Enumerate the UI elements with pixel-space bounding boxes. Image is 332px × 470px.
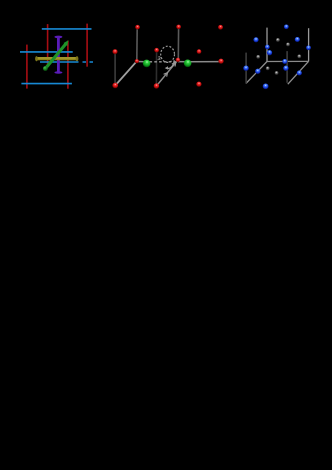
cell edge C-Cprime bbox=[246, 62, 267, 84]
purple axis arrow shaft bbox=[57, 38, 60, 73]
cell edge Bprime-Dprime hidden bbox=[286, 51, 288, 83]
bond R8-G2 horizontal bbox=[178, 61, 188, 63]
purple axis arrow bottom head bbox=[54, 71, 62, 74]
front-right red edge bbox=[67, 41, 69, 89]
atom B8 blue bbox=[255, 69, 260, 74]
olive axis arrow left head bbox=[35, 56, 38, 61]
atom R8 bbox=[176, 58, 180, 62]
translation chevron upper bbox=[172, 62, 176, 66]
atom B3 blue bbox=[295, 37, 300, 42]
rotation loop tail bbox=[166, 60, 174, 68]
atom B2 blue bbox=[253, 37, 258, 42]
green diagonal arrow ball end bbox=[43, 66, 48, 71]
atom B6 blue bbox=[306, 45, 311, 50]
atom D2 dark bbox=[286, 43, 290, 47]
rotation loop arrowhead bbox=[165, 66, 169, 70]
olive axis arrow shaft bbox=[37, 57, 77, 60]
bond R1-R3 vertical bbox=[136, 27, 138, 61]
atom R10 bbox=[218, 25, 223, 30]
screw axis label 21 bbox=[158, 57, 160, 60]
bond R2-R5 vertical bbox=[114, 52, 116, 86]
cell edge C-D bbox=[267, 60, 309, 62]
back-right red edge bbox=[86, 24, 88, 67]
atom R6 bbox=[154, 83, 159, 88]
atom R4 bbox=[154, 48, 159, 53]
atom R3 bbox=[135, 59, 139, 63]
back-bottom blue edge bbox=[40, 61, 79, 63]
bond R6-R8 diagonal bbox=[156, 60, 178, 87]
bond R4-R6 vertical bbox=[155, 50, 157, 86]
rotation loop dashed ellipse bbox=[161, 46, 175, 62]
back-bottom blue edge dashed end bbox=[83, 61, 94, 63]
atom D1 dark bbox=[276, 38, 280, 42]
green diagonal arrow shaft bbox=[45, 44, 66, 69]
atom R7 bbox=[176, 25, 181, 30]
front-left red edge bbox=[26, 45, 28, 89]
bond R3-G1 horizontal bbox=[137, 61, 146, 63]
cell edge Aprime-Cprime hidden bbox=[245, 53, 247, 84]
bond R7-R8 vertical bbox=[177, 27, 179, 60]
atom D4 dark bbox=[297, 55, 301, 59]
atom B4 blue bbox=[265, 45, 270, 50]
olive axis arrow right head bbox=[76, 56, 79, 61]
atom B12 blue bbox=[263, 83, 269, 89]
atom B9 blue bbox=[282, 59, 287, 64]
bond R5-R3 diagonal bbox=[115, 61, 137, 85]
atom R1 bbox=[135, 25, 140, 30]
atom B11 blue bbox=[297, 70, 302, 75]
atom D5 dark bbox=[266, 67, 270, 71]
atom R12 bbox=[196, 82, 201, 87]
atom B7 blue bbox=[243, 66, 248, 71]
green diagonal arrow tip bbox=[64, 40, 69, 46]
atom R9 bbox=[197, 49, 202, 54]
translation chevron lower bbox=[164, 73, 168, 77]
atom D6 dark bbox=[275, 71, 279, 75]
atom B1 blue bbox=[284, 24, 289, 29]
cell edge D-Dprime bbox=[288, 61, 309, 84]
cell edge B-D bbox=[308, 28, 310, 61]
atom G1 bbox=[143, 60, 151, 68]
purple axis arrow top head bbox=[54, 36, 62, 39]
atom B5 blue bbox=[267, 50, 272, 55]
back-left red edge bbox=[47, 24, 49, 66]
atom D3 dark bbox=[256, 55, 260, 59]
front-bottom blue edge bbox=[21, 83, 72, 85]
bond G2-R11 horizontal bbox=[188, 61, 220, 63]
atom R2 bbox=[113, 49, 118, 54]
cell edge A-C bbox=[266, 28, 268, 62]
front-top blue edge bbox=[20, 51, 73, 53]
atom G2 bbox=[184, 60, 192, 68]
back-top blue edge bbox=[42, 28, 92, 30]
olive axis arrow shaft highlight bbox=[37, 57, 77, 59]
dashed screw axis bbox=[150, 61, 178, 63]
atom B10 blue bbox=[283, 66, 288, 71]
atom R11 bbox=[218, 59, 223, 64]
atom R5 bbox=[112, 83, 118, 89]
